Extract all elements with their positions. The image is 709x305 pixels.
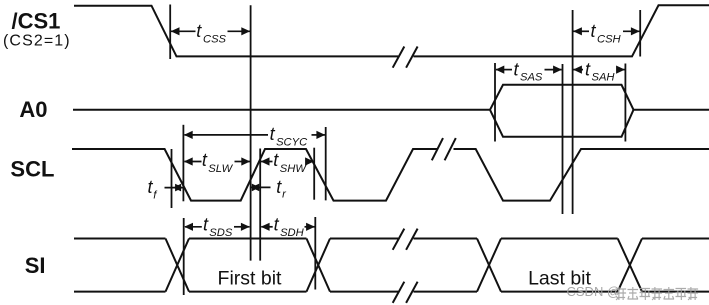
svg-text:/CS1: /CS1 bbox=[12, 9, 61, 34]
watermark CJK glyphs bbox=[616, 287, 699, 300]
arrow t_SLW bbox=[184, 150, 250, 175]
tick t_SCYC right bbox=[325, 127, 327, 200]
arrow t_SAH bbox=[573, 59, 625, 83]
arrow t_SAS bbox=[496, 59, 562, 83]
/CS1 break slashes bbox=[393, 47, 418, 68]
wire /CS1 waveform bbox=[74, 5, 709, 56]
svg-text:SCYC: SCYC bbox=[276, 136, 308, 148]
svg-text:SAH: SAH bbox=[592, 72, 616, 84]
svg-text:SHW: SHW bbox=[280, 163, 308, 175]
tick t_SDH right bbox=[314, 217, 316, 290]
svg-text:SCL: SCL bbox=[10, 157, 54, 182]
tick t_SDS left bbox=[183, 218, 185, 295]
tick t_SHW right bbox=[313, 148, 315, 200]
wire SI waveform rails and crossings bbox=[74, 239, 709, 292]
tick /CS1 rise (t_CSH right) bbox=[639, 10, 641, 57]
wire SCL waveform bbox=[72, 149, 709, 201]
arrow t_SDS bbox=[184, 215, 250, 239]
tick t_SAS left bbox=[494, 63, 496, 142]
arrow t_SCYC bbox=[184, 124, 325, 149]
svg-text:CSH: CSH bbox=[597, 33, 622, 45]
svg-text:CSS: CSS bbox=[203, 33, 227, 45]
tick t_f left bbox=[171, 149, 173, 208]
arrow t_CSH bbox=[573, 21, 640, 45]
reference line SCL rise end bbox=[259, 149, 261, 261]
arrow t_SHW bbox=[261, 150, 314, 175]
SI break slashes bbox=[393, 229, 418, 303]
arrow t_r bbox=[251, 177, 287, 201]
svg-text:A0: A0 bbox=[19, 97, 47, 122]
svg-text:First bit: First bit bbox=[218, 268, 283, 290]
reference line SCL rise mid (long) bbox=[250, 5, 252, 260]
arrow t_CSS bbox=[171, 21, 250, 45]
svg-text:SLW: SLW bbox=[208, 163, 233, 175]
svg-text:SI: SI bbox=[25, 253, 46, 278]
SCL break slashes bbox=[432, 138, 456, 160]
reference line SCL last rise (t_CSH left) bbox=[572, 10, 574, 214]
tick /CS1 fall bbox=[169, 5, 171, 60]
svg-text:(CS2=1): (CS2=1) bbox=[3, 33, 71, 50]
wire A0 waveform bbox=[73, 85, 709, 137]
svg-text:SDS: SDS bbox=[209, 227, 233, 239]
svg-text:SAS: SAS bbox=[520, 72, 543, 84]
tick t_SAH right bbox=[624, 64, 626, 142]
svg-text:CSDN @: CSDN @ bbox=[567, 284, 621, 299]
svg-text:SDH: SDH bbox=[280, 227, 305, 239]
reference line SCL fall end (t_SCYC left) bbox=[182, 125, 184, 202]
reference line A0 hold start bbox=[562, 64, 564, 214]
arrow t_SDH bbox=[261, 215, 315, 239]
arrow t_f bbox=[148, 177, 184, 201]
